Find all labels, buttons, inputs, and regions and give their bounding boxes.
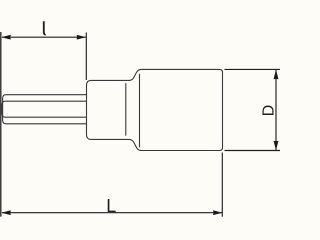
svg-text:L: L xyxy=(106,196,116,216)
svg-text:D: D xyxy=(261,105,278,117)
